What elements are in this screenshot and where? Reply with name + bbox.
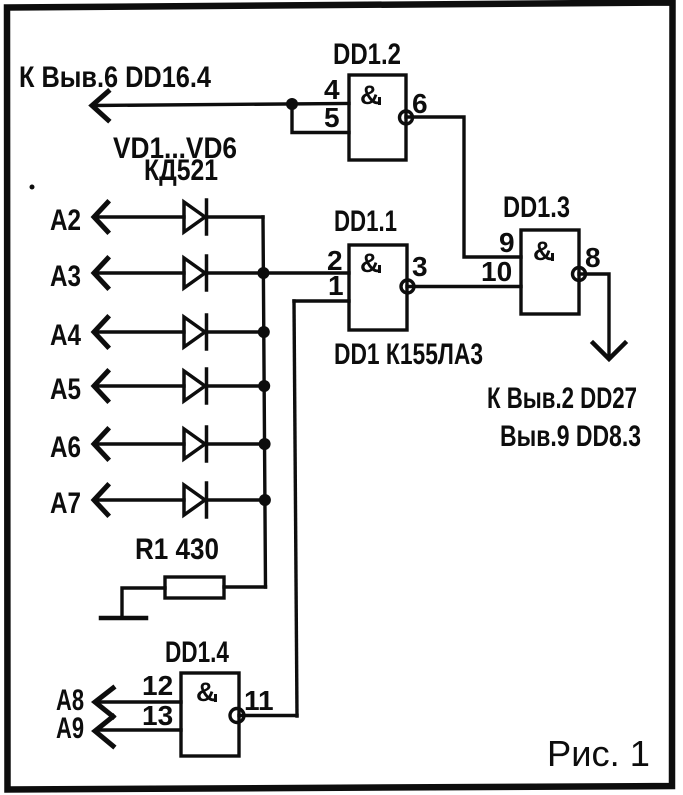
node junction dot bbox=[286, 98, 298, 110]
svg-text:DD1 К155ЛА3: DD1 К155ЛА3 bbox=[334, 338, 483, 371]
node junction dot A3 bus bbox=[257, 267, 269, 279]
wire: A7 to VD6 anode bbox=[96, 498, 184, 501]
diode VD5 cathode bar bbox=[205, 427, 209, 461]
svg-text:К Выв.2 DD27: К Выв.2 DD27 bbox=[487, 382, 637, 415]
diode VD3 cathode bar bbox=[205, 315, 209, 349]
svg-text:К Выв.6 DD16.4: К Выв.6 DD16.4 bbox=[19, 61, 211, 94]
wire: pin13 bbox=[99, 728, 181, 731]
DD1.1 output bubble bbox=[401, 280, 414, 293]
wire: VD2 cathode to DD1.1 pin 2 bbox=[207, 271, 350, 274]
wire: DD1.1 out to DD1.3 pin10 bbox=[407, 285, 521, 288]
diode VD5 bbox=[184, 429, 205, 459]
wire: VD3 cathode to bus bbox=[207, 330, 264, 333]
DD1.4 output bubble bbox=[230, 709, 244, 723]
wire: A4 to VD3 anode bbox=[96, 330, 184, 333]
node: A3 arrow bbox=[94, 259, 108, 288]
svg-text:10: 10 bbox=[481, 256, 512, 287]
node: A4 arrow bbox=[94, 318, 108, 347]
stray scan dot bbox=[30, 185, 35, 190]
diode VD2 cathode bar bbox=[205, 256, 209, 290]
wire: VD5 cathode to bus bbox=[207, 442, 265, 445]
node junction dot A7 bus bbox=[259, 494, 271, 506]
svg-text:DD1.3: DD1.3 bbox=[503, 191, 570, 224]
wire: junction drop to pin5 bbox=[292, 104, 349, 133]
wire: VD4 cathode to bus bbox=[207, 384, 265, 387]
node: A5 arrow bbox=[94, 372, 108, 401]
NAND gate DD1.3 body bbox=[521, 230, 579, 314]
svg-text:R1 430: R1 430 bbox=[135, 533, 219, 566]
wire: pin1 from vertical riser bbox=[294, 299, 349, 302]
svg-text:Рис. 1: Рис. 1 bbox=[547, 733, 650, 774]
node: A9 arrow bbox=[95, 717, 113, 747]
svg-text:13: 13 bbox=[142, 700, 173, 731]
svg-text:А3: А3 bbox=[50, 260, 81, 293]
svg-text:&: & bbox=[196, 677, 216, 707]
svg-text:А6: А6 bbox=[50, 431, 81, 464]
wire: A6 to VD5 anode bbox=[96, 442, 184, 445]
svg-text:DD1.2: DD1.2 bbox=[333, 38, 401, 71]
svg-text:Выв.9 DD8.3: Выв.9 DD8.3 bbox=[500, 420, 641, 453]
diode VD4 cathode bar bbox=[205, 369, 209, 403]
node: down arrowhead bbox=[593, 343, 625, 359]
node: left output arrow to DD16.4 bbox=[92, 92, 108, 121]
wire: VD6 cathode to bus bbox=[207, 498, 265, 501]
NAND gate DD1.2 body bbox=[349, 75, 406, 160]
diode VD1 bbox=[184, 202, 205, 232]
svg-text:&: & bbox=[360, 80, 380, 110]
wire: resistor left to ground bbox=[122, 588, 165, 616]
svg-text:3: 3 bbox=[412, 251, 428, 282]
wire: resistor right to bus bbox=[224, 585, 266, 588]
svg-text:А7: А7 bbox=[50, 487, 81, 520]
node: A7 arrow bbox=[94, 486, 108, 515]
svg-text:&: & bbox=[360, 248, 380, 278]
node: A8 arrow bbox=[95, 688, 113, 717]
svg-text:4: 4 bbox=[324, 74, 340, 105]
svg-text:А5: А5 bbox=[50, 373, 81, 406]
wire: pin4 feed bbox=[94, 104, 349, 106]
wire: pin12 bbox=[99, 700, 181, 703]
DD1.3 output bubble bbox=[573, 268, 586, 281]
ground bbox=[101, 616, 146, 621]
svg-text:А4: А4 bbox=[50, 319, 81, 352]
svg-text:5: 5 bbox=[324, 102, 340, 133]
diode VD1 cathode bar bbox=[205, 200, 209, 234]
wire: A5 to VD4 anode bbox=[96, 384, 184, 387]
diode VD6 cathode bar bbox=[205, 483, 209, 517]
wire: DD1.4 out to riser bbox=[239, 714, 297, 717]
node junction dot A5 bus bbox=[258, 380, 270, 392]
node: A2 arrow bbox=[94, 203, 108, 232]
diode VD6 bbox=[184, 485, 205, 515]
svg-text:11: 11 bbox=[244, 685, 274, 716]
svg-text:КД521: КД521 bbox=[144, 154, 218, 187]
diode VD2 bbox=[184, 258, 205, 288]
node junction dot A6 bus bbox=[259, 438, 271, 450]
wire: A3 to VD2 anode bbox=[96, 271, 184, 274]
node junction dot A4 bus bbox=[258, 326, 270, 338]
wire: diode bus vertical bbox=[206, 215, 263, 218]
svg-text:1: 1 bbox=[328, 270, 344, 301]
svg-text:DD1.4: DD1.4 bbox=[165, 636, 229, 669]
NAND gate DD1.4 body bbox=[181, 673, 239, 756]
svg-text:8: 8 bbox=[585, 242, 601, 273]
diode VD3 bbox=[184, 317, 205, 347]
diode VD4 bbox=[184, 371, 205, 401]
node: A6 arrow bbox=[94, 430, 108, 459]
wire: A2 to VD1 anode bbox=[96, 215, 184, 218]
svg-text:6: 6 bbox=[412, 88, 428, 119]
DD1.2 output bubble bbox=[400, 111, 413, 124]
svg-text:А2: А2 bbox=[50, 204, 81, 237]
svg-text:DD1.1: DD1.1 bbox=[334, 205, 397, 238]
svg-text:А9: А9 bbox=[56, 712, 84, 745]
resistor R1 body bbox=[165, 577, 224, 598]
NAND gate DD1.1 body bbox=[349, 245, 407, 330]
wire: DD1.2 out to DD1.3 pin9 bbox=[406, 117, 521, 257]
wire: DD1.3 out down to arrow bbox=[579, 274, 609, 356]
svg-text:12: 12 bbox=[142, 670, 173, 701]
svg-text:9: 9 bbox=[499, 227, 515, 258]
svg-text:&: & bbox=[533, 236, 553, 266]
